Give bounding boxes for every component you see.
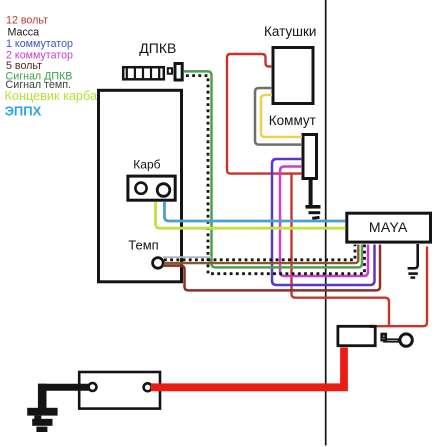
carb connector box <box>128 176 175 200</box>
key ring <box>400 334 412 346</box>
wire magenta 2 коммутатор <box>280 167 368 277</box>
temp sensor circle <box>153 258 164 269</box>
wire purple 1 коммутатор <box>272 159 375 285</box>
ECU box MAYA <box>347 213 431 242</box>
thick black ground wire from battery <box>42 387 90 408</box>
wire blue ЭППХ <box>165 202 346 221</box>
commutator box <box>303 135 317 179</box>
wire brown temp <box>164 245 358 264</box>
svg-text:Масса: Масса <box>8 26 40 38</box>
sensor ДПКВ toothed body <box>123 67 164 79</box>
wire dotted temp signal <box>164 245 355 260</box>
chassis ground symbol battery <box>27 408 57 432</box>
svg-text:Коммут: Коммут <box>269 113 316 128</box>
key stem bar <box>384 339 399 341</box>
svg-text:1 коммутатор: 1 коммутатор <box>6 38 73 50</box>
partition wall line <box>325 0 327 446</box>
engine block box <box>99 90 182 281</box>
ground below commutator <box>306 180 321 220</box>
wire dotted ДПКВ return <box>186 76 365 274</box>
battery box <box>79 372 160 409</box>
svg-text:12 вольт: 12 вольт <box>6 15 48 27</box>
wire red 12V from MAYA to ignition switch <box>373 247 428 327</box>
battery terminal plus <box>144 383 152 391</box>
coils box <box>273 48 313 104</box>
wire green ДПКВ signal <box>184 71 362 267</box>
sensor ДПКВ plug small square <box>168 68 172 74</box>
wire gray coil-commutator <box>255 88 302 145</box>
wire red 12V: coils feed and commutator feed <box>227 54 302 174</box>
wire yellowgreen Концевик карба <box>156 202 346 228</box>
ground right of MAYA <box>408 244 418 278</box>
key head square <box>382 334 387 341</box>
wire yellow coil-commutator <box>261 95 302 137</box>
carb pin right <box>157 184 170 197</box>
sensor ДПКВ connector body <box>175 64 182 81</box>
ignition switch box <box>338 326 375 345</box>
thick red battery positive wire <box>151 348 344 388</box>
svg-text:Темп: Темп <box>128 238 158 253</box>
wire maroon 5V <box>163 245 380 291</box>
wire silver temp aux <box>163 256 212 258</box>
carb pin left <box>135 183 146 194</box>
svg-text:ДПКВ: ДПКВ <box>139 40 176 56</box>
svg-text:ЭППХ: ЭППХ <box>5 104 42 119</box>
battery terminal minus <box>89 383 97 391</box>
wire red 12V branch to ignition <box>292 175 390 327</box>
svg-text:Карб: Карб <box>133 158 160 172</box>
svg-text:Концевик карба: Концевик карба <box>5 89 98 103</box>
svg-text:Катушки: Катушки <box>264 24 316 39</box>
junction ignition box corner red <box>370 325 375 328</box>
svg-text:MAYA: MAYA <box>369 219 408 235</box>
